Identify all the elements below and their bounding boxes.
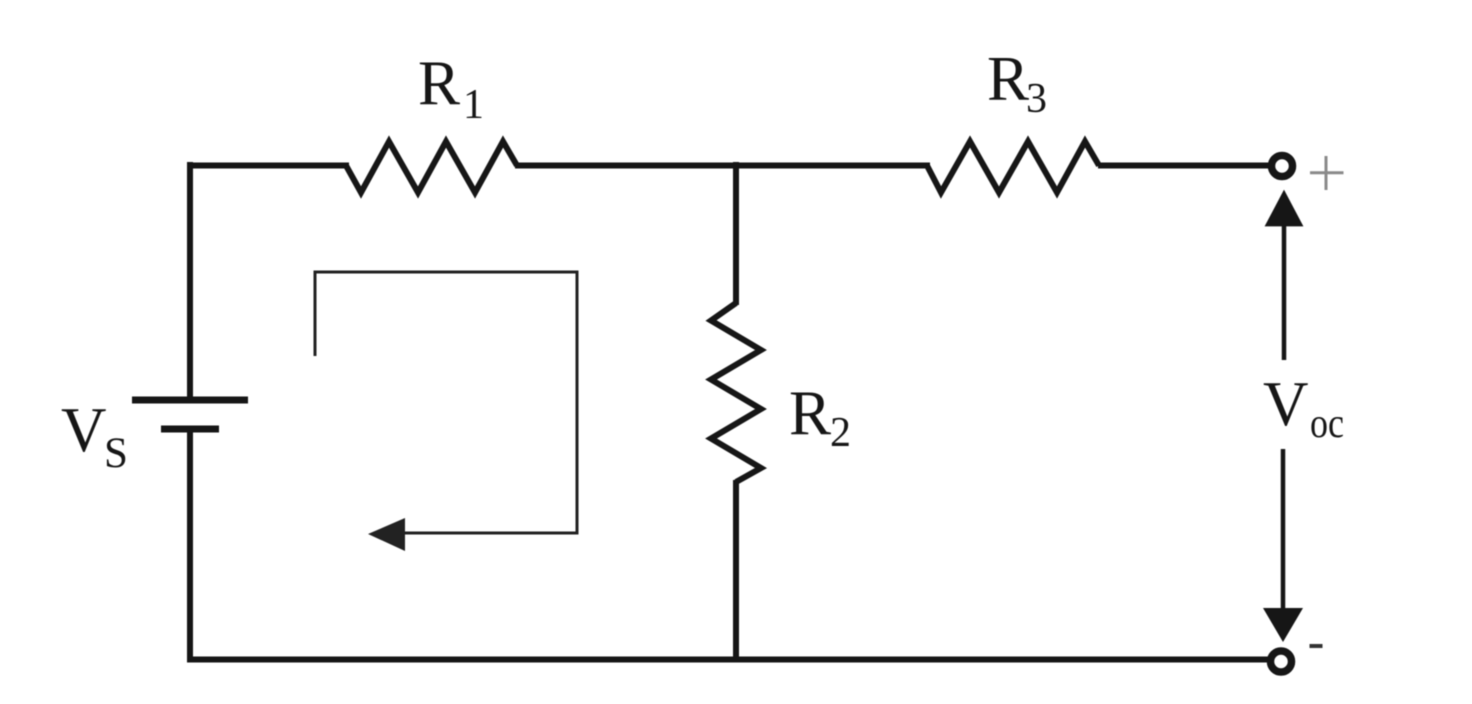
svg-text:V: V [61,395,107,465]
svg-text:R: R [987,44,1029,114]
svg-text:oc: oc [1310,401,1344,447]
svg-text:V: V [1263,369,1309,439]
svg-text:2: 2 [830,410,851,456]
svg-text:R: R [418,49,460,119]
svg-text:1: 1 [463,82,484,128]
svg-text:3: 3 [1026,76,1047,122]
svg-text:S: S [104,430,128,477]
svg-text:R: R [789,379,831,449]
